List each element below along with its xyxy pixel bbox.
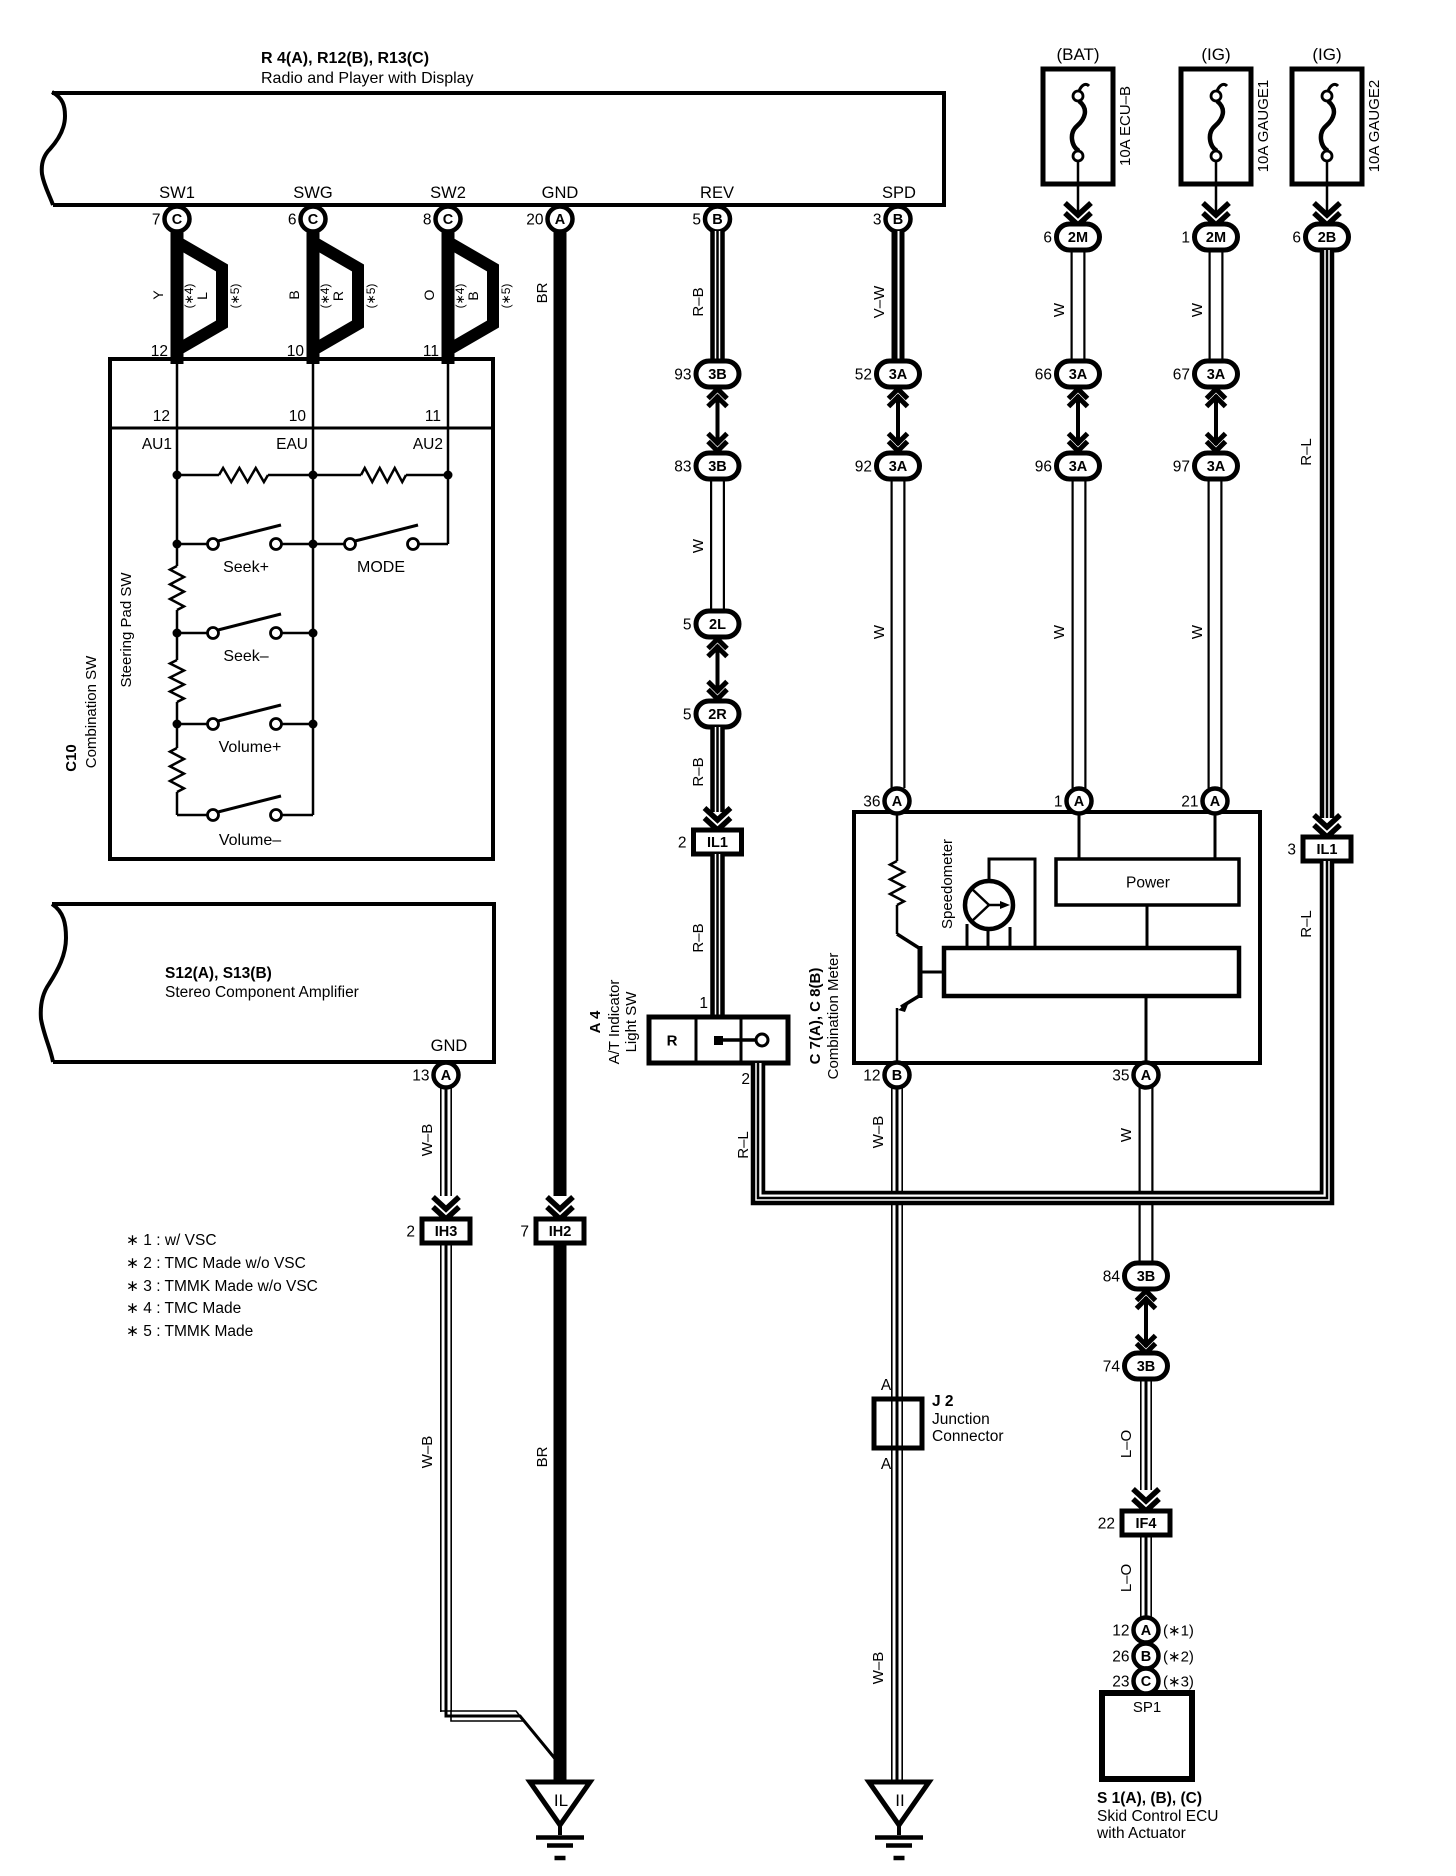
svg-text:Y: Y — [150, 290, 166, 300]
svg-text:12: 12 — [153, 408, 170, 425]
svg-text:S12(A), S13(B): S12(A), S13(B) — [165, 965, 272, 982]
connector junction arrows 84-74 — [1137, 1291, 1156, 1353]
svg-text:A: A — [441, 1068, 452, 1084]
pin 6 connector C (SWG) — [288, 207, 326, 232]
junction dots resistor row — [173, 471, 453, 480]
svg-text:AU1: AU1 — [142, 436, 172, 453]
svg-text:R–B: R–B — [690, 287, 707, 316]
connector 3 IL1 — [1287, 837, 1351, 861]
svg-text:C 7(A), C 8(B): C 7(A), C 8(B) — [807, 968, 824, 1065]
svg-text:R–B: R–B — [690, 757, 707, 786]
switch Volume+ — [173, 633, 318, 756]
svg-text:A: A — [555, 212, 566, 228]
arrow into 2B — [1314, 203, 1340, 225]
meter internal wiring — [967, 812, 1215, 1063]
resistor AU1-EAU — [177, 428, 313, 482]
meter speedometer — [939, 839, 1013, 929]
meter circuit box — [944, 948, 1239, 996]
svg-text:3: 3 — [873, 212, 882, 229]
combination meter C7/C8 box — [807, 812, 1260, 1079]
svg-text:A: A — [892, 794, 903, 810]
resistor chain 1 — [170, 544, 184, 633]
svg-text:Seek+: Seek+ — [223, 559, 269, 576]
connector 93 3B — [674, 361, 739, 387]
svg-text:3A: 3A — [1069, 367, 1088, 383]
svg-text:52: 52 — [855, 367, 872, 384]
svg-text:R–L: R–L — [1298, 910, 1315, 938]
svg-text:SW2: SW2 — [430, 184, 466, 202]
wire R-L from A/T switch pin 2 to connector 3 IL1 — [735, 861, 1332, 1203]
svg-text:96: 96 — [1035, 459, 1052, 476]
wire Y from pin 7 to C10 pin 12 — [150, 231, 242, 364]
meter pin 21 connector A — [1181, 789, 1227, 814]
svg-text:11: 11 — [425, 408, 441, 425]
svg-text:23: 23 — [1112, 1674, 1129, 1691]
svg-text:Combination SW: Combination SW — [83, 655, 100, 768]
fuse 10A GAUGE2 (IG) — [1292, 45, 1383, 213]
svg-text:REV: REV — [700, 184, 734, 202]
skid control ECU caption — [1096, 1790, 1218, 1842]
svg-text:1: 1 — [1181, 230, 1190, 247]
svg-text:W: W — [871, 624, 888, 639]
svg-text:∗ 5 : TMMK Made: ∗ 5 : TMMK Made — [126, 1323, 253, 1340]
svg-text:Volume–: Volume– — [219, 832, 281, 849]
connector 67 3A — [1173, 361, 1238, 387]
svg-text:10A GAUGE2: 10A GAUGE2 — [1366, 80, 1383, 173]
svg-text:Speedometer: Speedometer — [939, 839, 956, 929]
svg-text:Light SW: Light SW — [623, 991, 640, 1053]
svg-text:(∗1): (∗1) — [1163, 1622, 1194, 1639]
svg-text:GND: GND — [431, 1037, 468, 1055]
connector 2 IL1 — [678, 830, 742, 854]
meter power box — [1056, 859, 1239, 905]
svg-text:7: 7 — [520, 1224, 529, 1241]
svg-text:W–B: W–B — [870, 1116, 887, 1149]
svg-text:with Actuator: with Actuator — [1096, 1825, 1186, 1842]
connector 96 3A — [1035, 453, 1100, 479]
C10 pin 10 lead — [276, 359, 313, 453]
svg-text:∗ 3 : TMMK Made w/o VSC: ∗ 3 : TMMK Made w/o VSC — [126, 1278, 318, 1295]
wire W from 92 3A to meter pin 36 — [871, 479, 906, 788]
svg-text:(∗5): (∗5) — [499, 284, 513, 309]
svg-text:W: W — [690, 538, 707, 553]
meter pin 12 connector B — [863, 1063, 909, 1088]
svg-text:1: 1 — [699, 995, 708, 1012]
svg-text:Stereo Component Amplifier: Stereo Component Amplifier — [165, 984, 359, 1001]
notes legend — [126, 1232, 318, 1340]
svg-text:Power: Power — [1126, 875, 1170, 892]
wire W-B from J2 to ground II — [870, 1448, 903, 1782]
svg-text:3B: 3B — [1137, 1359, 1156, 1375]
svg-text:2B: 2B — [1318, 230, 1337, 246]
connector 2 IH3 — [406, 1219, 470, 1243]
connector 7 IH2 — [520, 1219, 584, 1243]
pin 13 connector A (amplifier GND) — [412, 1063, 458, 1088]
svg-text:C: C — [1141, 1674, 1152, 1690]
arrow into IL1 right — [1314, 815, 1340, 837]
connector junction arrows 67-97 — [1207, 389, 1226, 451]
svg-text:W: W — [1118, 1127, 1135, 1142]
svg-text:IF4: IF4 — [1136, 1516, 1157, 1532]
pin 20 connector A (GND) — [526, 207, 572, 232]
connector 97 3A — [1173, 453, 1238, 479]
svg-text:A: A — [881, 1456, 892, 1473]
svg-text:L–O: L–O — [1118, 1564, 1135, 1592]
switch MODE — [313, 475, 448, 576]
svg-text:GND: GND — [542, 184, 579, 202]
wire W from 96 3A to meter pin 1 — [1051, 479, 1087, 788]
svg-text:R: R — [330, 291, 346, 301]
svg-text:B: B — [1141, 1649, 1151, 1665]
svg-text:5: 5 — [683, 617, 692, 634]
svg-text:6: 6 — [1043, 230, 1052, 247]
svg-text:6: 6 — [1292, 230, 1301, 247]
arrow into IL1 — [705, 808, 731, 830]
svg-text:W–B: W–B — [419, 1436, 436, 1469]
svg-text:C: C — [308, 212, 319, 228]
connector junction arrows 93-83 — [708, 389, 727, 451]
svg-text:(IG): (IG) — [1201, 45, 1230, 64]
svg-text:A: A — [1141, 1068, 1152, 1084]
wire W from meter pin 35 to 84 3B — [1118, 1087, 1154, 1263]
svg-text:93: 93 — [674, 367, 691, 384]
svg-text:S 1(A), (B), (C): S 1(A), (B), (C) — [1097, 1790, 1202, 1807]
svg-text:A/T Indicator: A/T Indicator — [606, 980, 623, 1065]
svg-text:B: B — [893, 212, 903, 228]
svg-text:∗ 4 : TMC Made: ∗ 4 : TMC Made — [126, 1300, 241, 1317]
switch Seek+ — [173, 475, 318, 576]
svg-text:IH3: IH3 — [435, 1224, 458, 1240]
svg-text:2: 2 — [406, 1224, 415, 1241]
wire W REV — [690, 479, 725, 611]
svg-text:(BAT): (BAT) — [1056, 45, 1099, 64]
pin 26 connector B (*2) — [1112, 1644, 1194, 1669]
connector 74 3B — [1103, 1353, 1168, 1379]
svg-text:7: 7 — [152, 212, 161, 229]
svg-text:1: 1 — [1054, 794, 1063, 811]
svg-text:II: II — [895, 1791, 904, 1810]
svg-text:W–B: W–B — [419, 1124, 436, 1157]
wire R-B from 2R to IL1 — [690, 727, 725, 812]
svg-text:C: C — [172, 212, 183, 228]
wire O from pin 8 to C10 pin 11 — [421, 231, 513, 364]
svg-text:3A: 3A — [1207, 459, 1226, 475]
connector junction arrows 66-96 — [1069, 389, 1088, 451]
switch Volume- — [177, 724, 313, 849]
svg-text:67: 67 — [1173, 367, 1190, 384]
svg-text:21: 21 — [1181, 794, 1198, 811]
svg-text:Skid Control ECU: Skid Control ECU — [1097, 1808, 1218, 1825]
wire BR from pin 20 to ground IL — [534, 231, 567, 1196]
svg-text:A: A — [1141, 1623, 1152, 1639]
svg-text:R–B: R–B — [690, 923, 707, 952]
junction connector J2 — [874, 1393, 1004, 1448]
svg-text:SP1: SP1 — [1133, 1699, 1161, 1716]
meter pin 36 connector A — [863, 789, 909, 814]
svg-text:∗ 1 : w/ VSC: ∗ 1 : w/ VSC — [126, 1232, 217, 1249]
connector 6 2M — [1043, 224, 1099, 250]
svg-text:12: 12 — [1112, 1623, 1129, 1640]
svg-text:W: W — [1051, 302, 1068, 317]
wire L-O from IF4 to skid control ECU — [1118, 1535, 1152, 1617]
svg-text:(∗2): (∗2) — [1163, 1648, 1194, 1665]
A/T indicator light switch A4 box — [649, 1017, 788, 1063]
connector junction arrows 2L-2R — [708, 639, 727, 699]
svg-text:2R: 2R — [708, 707, 727, 723]
svg-text:(IG): (IG) — [1312, 45, 1341, 64]
svg-text:Junction: Junction — [932, 1411, 990, 1428]
svg-text:Combination Meter: Combination Meter — [825, 953, 842, 1080]
svg-text:Radio and Player with Display: Radio and Player with Display — [261, 70, 474, 87]
connector junction arrows 52-92 — [889, 389, 908, 451]
svg-text:13: 13 — [412, 1068, 429, 1085]
pin 7 connector C (SW1) — [152, 207, 190, 232]
svg-text:3B: 3B — [1137, 1269, 1156, 1285]
meter resistor — [890, 812, 904, 934]
stereo component amplifier box S12/S13 — [41, 904, 494, 1062]
connector 22 IF4 — [1098, 1511, 1170, 1535]
svg-text:C: C — [443, 212, 454, 228]
svg-text:J 2: J 2 — [932, 1393, 954, 1410]
connector 5 2L — [683, 611, 739, 637]
svg-text:3A: 3A — [889, 459, 908, 475]
svg-text:(∗5): (∗5) — [228, 284, 242, 309]
pin 3 connector B (SPD) — [873, 207, 911, 232]
fuse 10A GAUGE1 (IG) — [1181, 45, 1272, 213]
svg-text:2L: 2L — [709, 617, 726, 633]
svg-text:W: W — [1189, 302, 1206, 317]
connector 84 3B — [1103, 1263, 1168, 1289]
svg-text:10A GAUGE1: 10A GAUGE1 — [1255, 80, 1272, 173]
switch Seek- — [173, 544, 318, 665]
svg-text:MODE: MODE — [357, 559, 405, 576]
C10 pin 12 lead — [142, 359, 177, 453]
svg-text:A: A — [1210, 794, 1221, 810]
svg-text:2M: 2M — [1206, 230, 1226, 246]
svg-text:Connector: Connector — [932, 1428, 1004, 1445]
wire R-L from 2B to IL1 — [1298, 250, 1334, 818]
svg-text:B: B — [892, 1068, 902, 1084]
svg-text:B: B — [465, 291, 481, 300]
svg-text:5: 5 — [683, 707, 692, 724]
svg-text:AU2: AU2 — [413, 436, 443, 453]
wire W-B from IH3 to ground IL — [419, 1244, 560, 1766]
svg-text:IL1: IL1 — [707, 835, 728, 851]
svg-text:3: 3 — [1287, 842, 1296, 859]
svg-text:35: 35 — [1112, 1068, 1129, 1085]
svg-text:10: 10 — [289, 408, 307, 425]
arrow into IH3 — [433, 1197, 459, 1219]
svg-text:12: 12 — [863, 1068, 880, 1085]
svg-text:66: 66 — [1035, 367, 1052, 384]
meter pin 1 connector A — [1054, 789, 1092, 814]
svg-text:36: 36 — [863, 794, 880, 811]
svg-text:R–L: R–L — [1298, 438, 1315, 466]
svg-text:B: B — [712, 212, 722, 228]
svg-text:3B: 3B — [708, 459, 727, 475]
svg-text:Seek–: Seek– — [223, 648, 268, 665]
svg-text:22: 22 — [1098, 1516, 1115, 1533]
svg-text:5: 5 — [692, 212, 701, 229]
svg-text:10A ECU–B: 10A ECU–B — [1117, 86, 1134, 166]
svg-text:2: 2 — [678, 835, 687, 852]
svg-text:∗ 2 : TMC Made w/o VSC: ∗ 2 : TMC Made w/o VSC — [126, 1255, 306, 1272]
svg-text:2: 2 — [741, 1071, 750, 1088]
svg-text:8: 8 — [423, 212, 432, 229]
svg-text:R–L: R–L — [735, 1131, 752, 1159]
resistor chain 3 — [170, 724, 184, 815]
svg-text:SWG: SWG — [293, 184, 332, 202]
connector 83 3B — [674, 453, 739, 479]
connector 66 3A — [1035, 361, 1100, 387]
meter pin 35 connector A — [1112, 1063, 1158, 1088]
pin 8 connector C (SW2) — [423, 207, 461, 232]
pin 23 connector C (*3) — [1112, 1669, 1194, 1694]
wire W-B from meter pin 12 to junction connector J2 — [870, 1087, 903, 1399]
svg-text:L: L — [194, 292, 210, 300]
pin 5 connector B (REV) — [692, 207, 730, 232]
svg-text:(∗5): (∗5) — [364, 284, 378, 309]
svg-text:3A: 3A — [1207, 367, 1226, 383]
connector 1 2M — [1181, 224, 1237, 250]
skid control ECU SP1 box — [1102, 1693, 1192, 1779]
connector 92 3A — [855, 453, 920, 479]
svg-text:O: O — [421, 289, 437, 300]
connector 52 3A — [855, 361, 920, 387]
svg-text:B: B — [286, 290, 302, 299]
svg-text:3B: 3B — [708, 367, 727, 383]
ground II — [869, 1782, 929, 1858]
svg-text:SPD: SPD — [882, 184, 916, 202]
wire V-W from pin 3 SPD — [871, 231, 905, 361]
svg-text:EAU: EAU — [276, 436, 308, 453]
pin 12 connector A (*1) — [1112, 1618, 1194, 1643]
svg-text:3A: 3A — [889, 367, 908, 383]
svg-text:A: A — [881, 1377, 892, 1394]
svg-text:Volume+: Volume+ — [219, 739, 282, 756]
C10 pin 11 lead — [413, 359, 448, 453]
wire W from 97 3A to meter pin 21 — [1189, 479, 1223, 788]
svg-text:W–B: W–B — [870, 1652, 887, 1685]
svg-text:3A: 3A — [1069, 459, 1088, 475]
radio and player with display box R4/R12/R13 — [42, 50, 944, 205]
wire R-B from IL1 to A/T indicator light switch — [690, 854, 725, 1017]
svg-text:2M: 2M — [1068, 230, 1088, 246]
svg-text:26: 26 — [1112, 1649, 1129, 1666]
svg-text:IL1: IL1 — [1317, 842, 1338, 858]
connector 5 2R — [683, 701, 739, 727]
svg-text:Steering Pad SW: Steering Pad SW — [118, 572, 135, 688]
svg-text:6: 6 — [288, 212, 297, 229]
svg-text:20: 20 — [526, 212, 544, 229]
wire W-B from pin 13 to IH3 — [419, 1087, 452, 1196]
svg-text:C10: C10 — [63, 744, 80, 772]
wire L-O from 74 3B to IF4 — [1118, 1379, 1152, 1490]
ground IL — [530, 1782, 590, 1858]
svg-text:BR: BR — [534, 1446, 551, 1467]
svg-text:IL: IL — [554, 1791, 568, 1810]
wire R-B from pin 5 REV — [690, 231, 725, 361]
wire B from pin 6 to C10 pin 10 — [286, 231, 378, 364]
meter transistor — [897, 934, 944, 1063]
svg-text:V–W: V–W — [871, 285, 888, 318]
wire W GAUGE1 — [1189, 250, 1224, 361]
arrow into 2M gauge1 — [1203, 203, 1229, 225]
svg-text:97: 97 — [1173, 459, 1190, 476]
arrow into IF4 — [1133, 1489, 1159, 1511]
svg-text:W: W — [1189, 624, 1206, 639]
svg-text:83: 83 — [674, 459, 691, 476]
svg-text:(∗3): (∗3) — [1163, 1673, 1194, 1690]
arrow into 2M — [1065, 203, 1091, 225]
svg-text:SW1: SW1 — [159, 184, 195, 202]
svg-text:84: 84 — [1103, 1269, 1121, 1286]
svg-text:92: 92 — [855, 459, 872, 476]
svg-text:BR: BR — [534, 282, 551, 303]
svg-text:R: R — [667, 1032, 678, 1049]
resistor EAU-AU2 — [313, 428, 448, 482]
svg-text:74: 74 — [1103, 1359, 1121, 1376]
arrow into IH2 — [547, 1197, 573, 1219]
svg-text:L–O: L–O — [1118, 1430, 1135, 1458]
fuse 10A ECU-B (BAT) — [1043, 45, 1134, 213]
wire W ECU-B — [1051, 250, 1086, 361]
svg-text:IH2: IH2 — [549, 1224, 572, 1240]
wire BR from IH2 to ground IL — [534, 1244, 567, 1782]
connector 6 2B — [1292, 224, 1348, 250]
svg-text:A: A — [1074, 794, 1085, 810]
svg-text:R 4(A), R12(B), R13(C): R 4(A), R12(B), R13(C) — [261, 50, 429, 67]
combination switch C10 box — [63, 359, 493, 859]
svg-text:W: W — [1051, 624, 1068, 639]
svg-text:A 4: A 4 — [587, 1010, 604, 1033]
resistor chain 2 — [170, 633, 184, 724]
